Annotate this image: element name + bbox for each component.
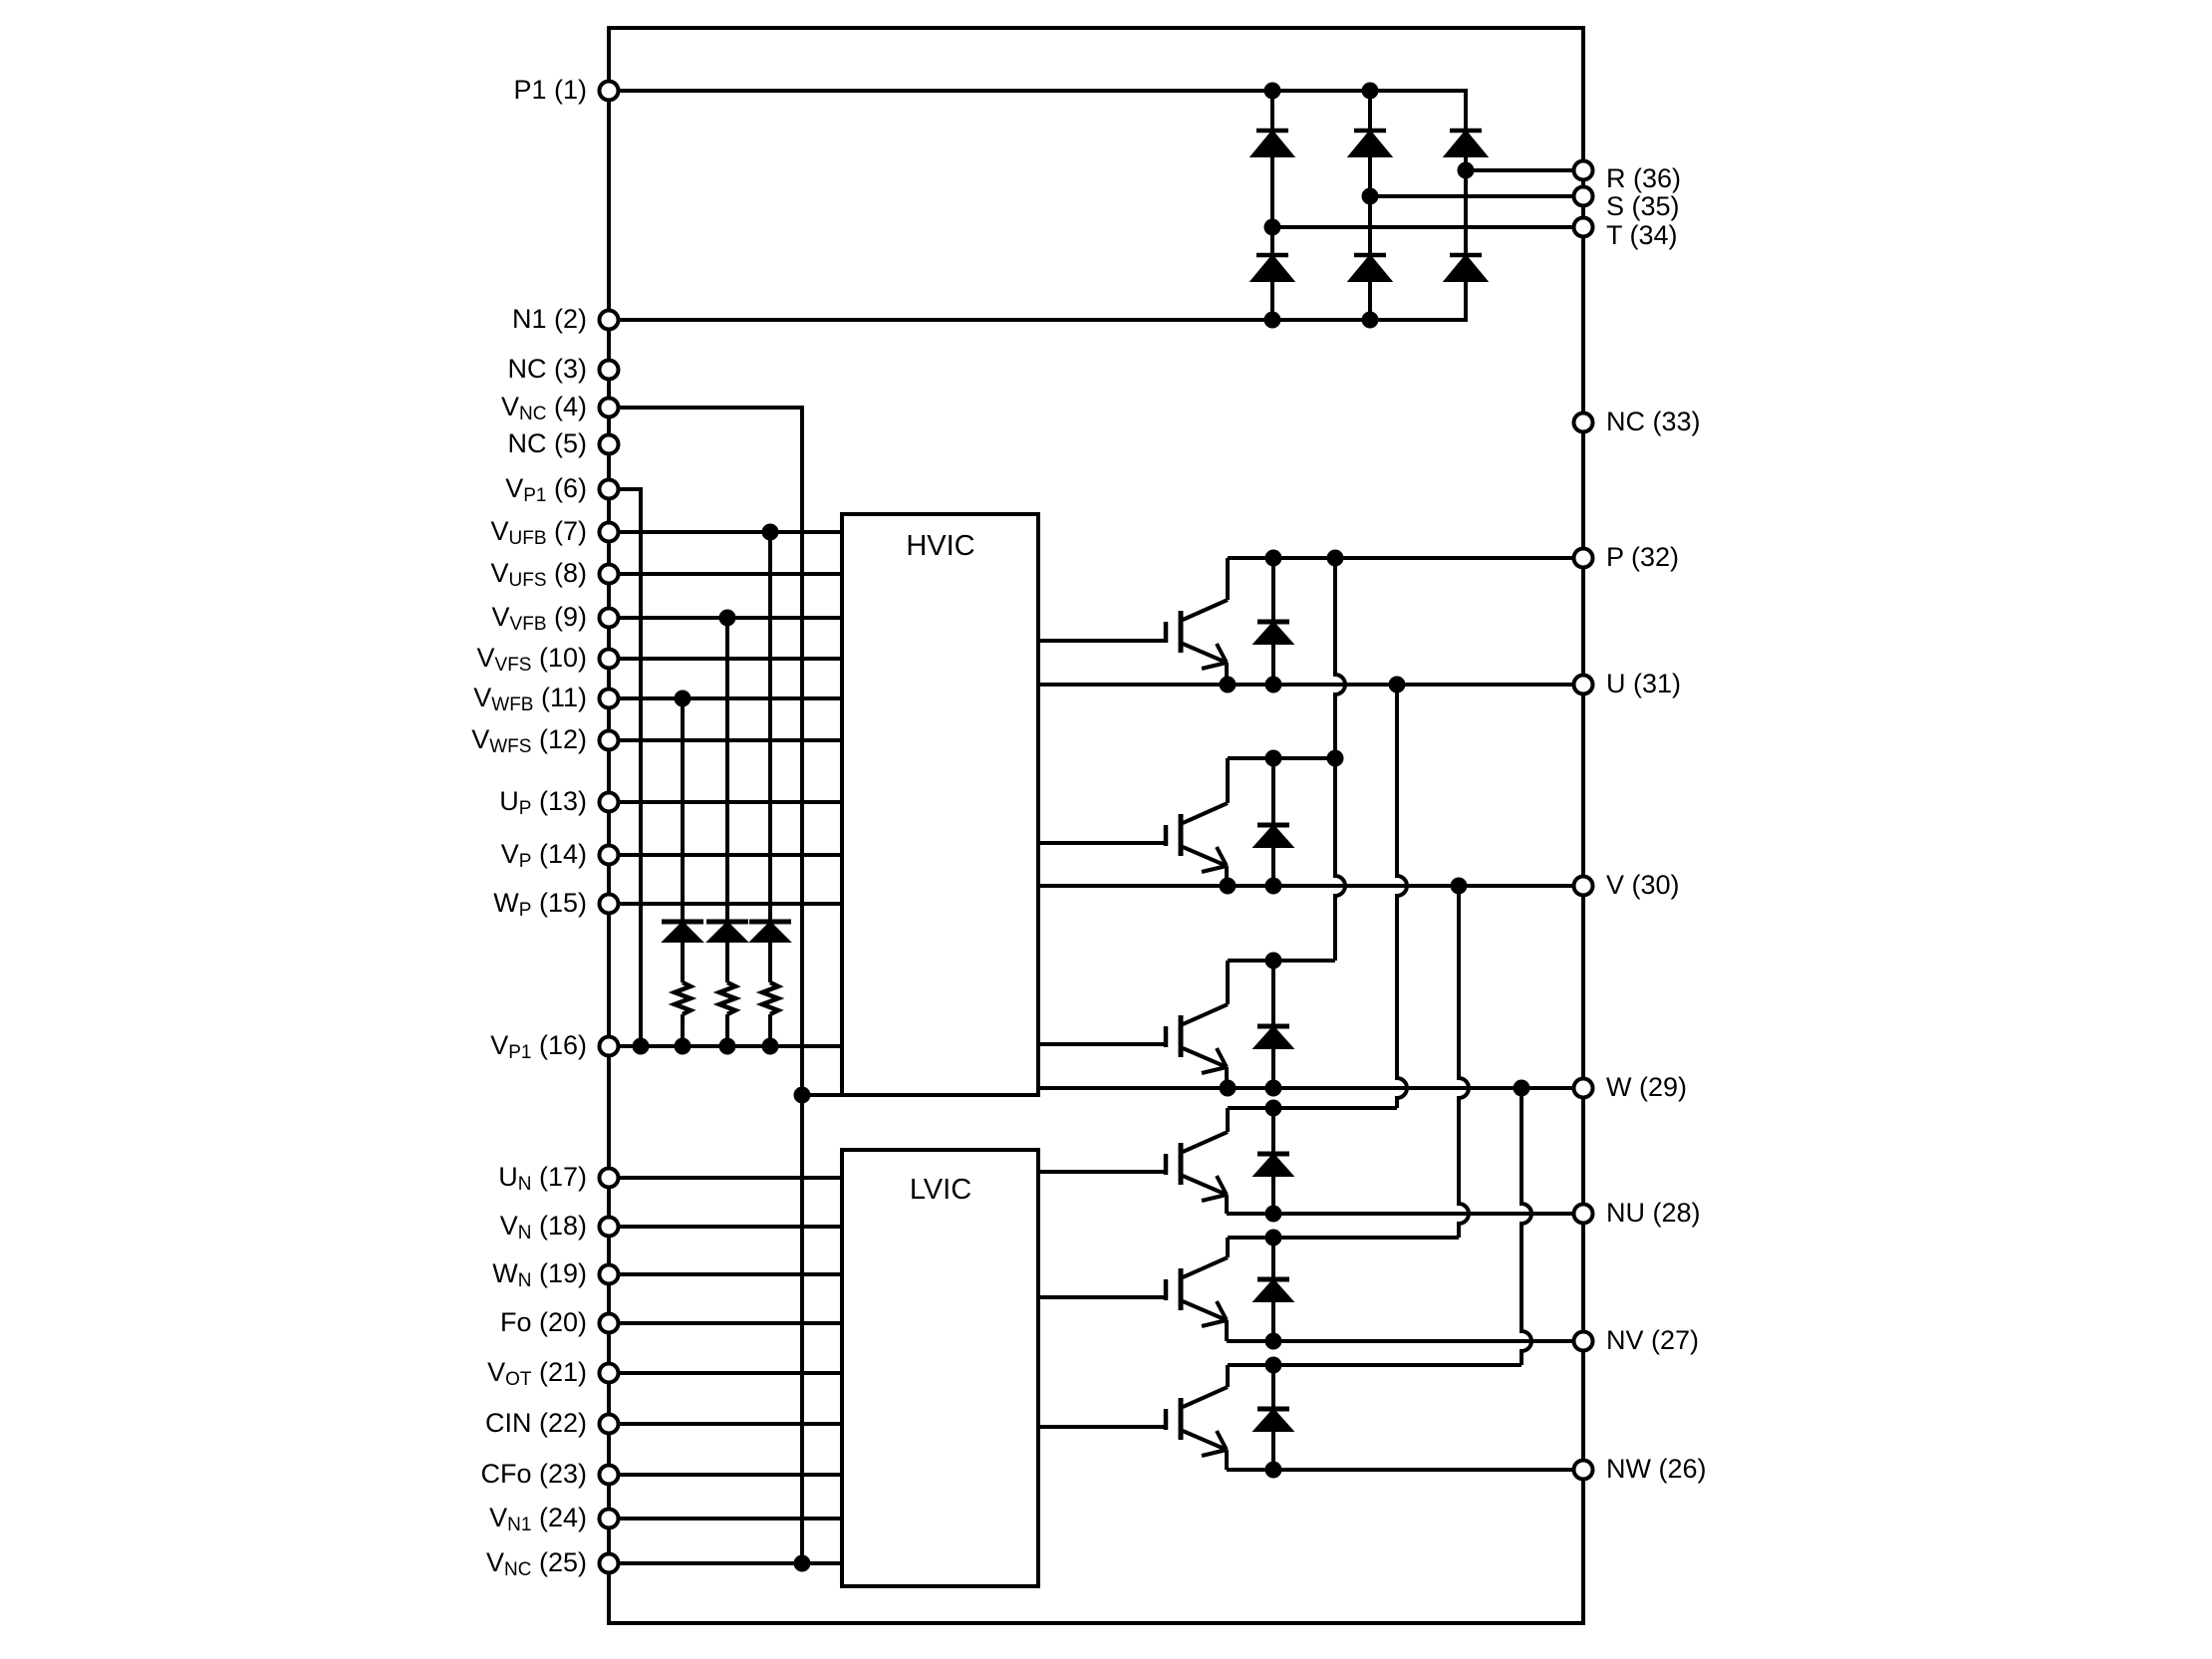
- wire V output line (pin 30): [1038, 884, 1583, 888]
- wire U output line (pin 31): [1038, 683, 1583, 687]
- node P/diode D10: [1265, 550, 1282, 567]
- node NW/diode D15 anode: [1265, 1462, 1282, 1479]
- pin U (31): [1574, 669, 1682, 698]
- svg-text:NW (26): NW (26): [1606, 1454, 1707, 1484]
- node V/down-line: [1451, 878, 1468, 895]
- wire R line: [1466, 168, 1583, 172]
- pin CIN (22): [485, 1408, 619, 1438]
- svg-text:VP1 (16): VP1 (16): [490, 1030, 587, 1063]
- wire VP (14) to HVIC: [609, 853, 842, 857]
- wire NU line (pin 28): [1227, 1212, 1583, 1216]
- diode D6 rectifier lower: [1447, 255, 1485, 280]
- svg-text:V (30): V (30): [1606, 870, 1680, 900]
- svg-text:NC (33): NC (33): [1606, 407, 1701, 436]
- node V/Q2 emitter: [1220, 878, 1237, 895]
- node N1/rect col1: [1264, 312, 1281, 329]
- wire bootstrap column U-phase: [768, 532, 772, 1046]
- wire gate lead Q3 W-phase high-side: [1038, 1042, 1166, 1046]
- pin VP (14): [501, 839, 619, 872]
- diode D12 freewheel of Q3 W-phase high-side: [1256, 961, 1290, 1088]
- diode D3 rectifier upper: [1447, 131, 1485, 155]
- svg-text:UP (13): UP (13): [499, 786, 587, 819]
- transistor Q5 V-phase low-side IGBT: [1166, 1238, 1228, 1341]
- wire NV line (pin 27): [1227, 1339, 1583, 1343]
- node U/diode D10 anode: [1265, 677, 1282, 693]
- resistor R1 bootstrap W-phase: [675, 982, 691, 1014]
- wire VUFB (7) to HVIC: [609, 530, 842, 534]
- transistor Q4 U-phase low-side IGBT: [1166, 1108, 1228, 1214]
- resistor R3 bootstrap U-phase: [762, 982, 778, 1014]
- wire VP1 net (pin 6 to VP1 pin16 rail): [609, 489, 641, 1046]
- node U/Q1 emitter: [1220, 677, 1237, 693]
- diode D9 bootstrap U-phase: [749, 922, 791, 941]
- node T junction: [1264, 219, 1281, 236]
- wire VNC (25) to LVIC: [609, 1561, 842, 1565]
- pin N1 (2): [512, 304, 619, 334]
- wire WP (15) to HVIC: [609, 902, 842, 906]
- svg-text:UN (17): UN (17): [498, 1162, 587, 1195]
- pin VNC (4): [501, 392, 618, 424]
- diode D5 rectifier lower: [1351, 255, 1389, 280]
- wire VNC net (pin 4 down to pin 25 / LVIC): [609, 408, 802, 1563]
- diode D1 rectifier upper: [1253, 131, 1291, 155]
- wire UP (13) to HVIC: [609, 800, 842, 804]
- wire bootstrap column W-phase: [681, 698, 685, 1046]
- wire P rail (pin 32): [1228, 556, 1583, 560]
- pin WP (15): [493, 888, 618, 921]
- pin R (36): [1574, 161, 1682, 194]
- wire gate lead Q4 U-phase low-side: [1038, 1170, 1166, 1174]
- node VP1 rail/VP1-6: [633, 1038, 650, 1055]
- node VWFB/bootstrap W: [675, 691, 691, 707]
- wire gate lead Q2 V-phase high-side: [1038, 841, 1166, 845]
- node W/diode D12 anode: [1265, 1080, 1282, 1097]
- pin VVFS (10): [477, 643, 619, 676]
- wire gate lead Q5 V-phase low-side: [1038, 1295, 1166, 1299]
- module package outline: [609, 28, 1583, 1623]
- pin W (29): [1574, 1072, 1688, 1102]
- diode D8 bootstrap V-phase: [706, 922, 748, 941]
- wire VWFS (12) to HVIC: [609, 738, 842, 742]
- pin VUFS (8): [490, 558, 618, 591]
- node VVFB/bootstrap V: [719, 610, 736, 627]
- wire gate lead Q6 W-phase low-side: [1038, 1425, 1166, 1429]
- pin T (34): [1574, 218, 1678, 251]
- pin VN (18): [500, 1211, 619, 1244]
- pin NC (33): [1574, 407, 1701, 436]
- rectifier bridge middle column: [1368, 91, 1372, 320]
- svg-text:NU (28): NU (28): [1606, 1198, 1701, 1228]
- pin VP1 (16): [490, 1030, 618, 1063]
- node VNC/pin25: [794, 1555, 811, 1572]
- wire CFo (23) to LVIC: [609, 1473, 842, 1477]
- svg-text:NC (3): NC (3): [508, 354, 588, 384]
- wire VVFB (9) to HVIC: [609, 616, 842, 620]
- node V collector/riser: [1327, 750, 1344, 767]
- node U/down-line: [1389, 677, 1406, 693]
- node P1/rect col1: [1264, 83, 1281, 100]
- wire P1 bus (pin 1 to rectifier top, down right column, back to N1 pin 2): [609, 91, 1466, 320]
- transistor Q6 W-phase low-side IGBT: [1166, 1365, 1228, 1470]
- diode D10 freewheel of Q1 U-phase high-side: [1256, 558, 1290, 685]
- svg-text:P (32): P (32): [1606, 542, 1679, 572]
- svg-text:VOT (21): VOT (21): [487, 1357, 587, 1390]
- wire V-phase low-side collector rail: [1228, 1236, 1459, 1240]
- diode D14 freewheel of Q5 V-phase low-side: [1256, 1238, 1290, 1341]
- diode D13 freewheel of Q4 U-phase low-side: [1256, 1108, 1290, 1214]
- svg-text:NV (27): NV (27): [1606, 1325, 1699, 1355]
- wire VNC to HVIC bottom: [802, 1093, 842, 1097]
- node VP1 rail/boot V: [719, 1038, 736, 1055]
- svg-text:N1 (2): N1 (2): [512, 304, 587, 334]
- svg-text:S (35): S (35): [1606, 191, 1680, 221]
- wire W node down-line: [1521, 1088, 1531, 1365]
- svg-text:NC (5): NC (5): [508, 428, 588, 458]
- wire P riser to V/W collectors: [1335, 558, 1345, 961]
- svg-text:W (29): W (29): [1606, 1072, 1687, 1102]
- transistor Q3 W-phase high-side IGBT: [1166, 961, 1228, 1088]
- svg-text:T (34): T (34): [1606, 220, 1678, 250]
- pin VN1 (24): [489, 1503, 618, 1535]
- node VNC/HVIC: [794, 1087, 811, 1104]
- node VP1 rail/boot U: [762, 1038, 779, 1055]
- wire UN (17) to LVIC: [609, 1176, 842, 1180]
- svg-text:U (31): U (31): [1606, 669, 1681, 698]
- node N1/rect col2: [1362, 312, 1379, 329]
- svg-text:VN1 (24): VN1 (24): [489, 1503, 587, 1535]
- wire W-phase high-side collector rail: [1228, 959, 1335, 963]
- wire NW line (pin 26): [1227, 1468, 1583, 1472]
- pin V (30): [1574, 870, 1680, 900]
- node W collector/diode D12: [1265, 953, 1282, 969]
- pin VNC (25): [486, 1547, 619, 1580]
- pin VWFB (11): [473, 683, 618, 715]
- rectifier bridge left column: [1270, 91, 1274, 320]
- pin NU (28): [1574, 1198, 1701, 1228]
- svg-text:CIN (22): CIN (22): [485, 1408, 587, 1438]
- pin UN (17): [498, 1162, 618, 1195]
- IC U2 LVIC gate-driver block: [842, 1150, 1038, 1586]
- wire VN (18) to LVIC: [609, 1225, 842, 1229]
- wire VOT (21) to LVIC: [609, 1371, 842, 1375]
- node R junction: [1458, 162, 1475, 179]
- svg-text:VP (14): VP (14): [501, 839, 587, 872]
- wire V-phase high-side collector rail: [1228, 756, 1335, 760]
- wire U node down-line: [1397, 685, 1407, 1108]
- pin VVFB (9): [492, 602, 619, 635]
- wire T line: [1272, 225, 1583, 229]
- wire U-phase low-side collector rail: [1228, 1106, 1397, 1110]
- diode D15 freewheel of Q6 W-phase low-side: [1256, 1365, 1290, 1470]
- svg-text:HVIC: HVIC: [906, 530, 974, 562]
- node LS-U collector/diode D13: [1265, 1100, 1282, 1117]
- node VP1 rail/boot W: [675, 1038, 691, 1055]
- pin Fo (20): [500, 1307, 619, 1337]
- diode D11 freewheel of Q2 V-phase high-side: [1256, 758, 1290, 886]
- node VUFB/bootstrap U: [762, 524, 779, 541]
- pin VP1 (6): [505, 473, 618, 506]
- diode D7 bootstrap W-phase: [662, 922, 703, 941]
- pin VWFS (12): [471, 724, 618, 757]
- diode D4 rectifier lower: [1253, 255, 1291, 280]
- wire V node down-line: [1459, 886, 1469, 1238]
- node NU/diode D13 anode: [1265, 1206, 1282, 1223]
- node LS-W collector/diode D15: [1265, 1357, 1282, 1374]
- pin NW (26): [1574, 1454, 1707, 1484]
- node P/riser: [1327, 550, 1344, 567]
- pin VUFB (7): [490, 516, 618, 549]
- transistor Q1 U-phase high-side IGBT: [1166, 558, 1228, 685]
- wire S line: [1370, 194, 1583, 198]
- svg-text:VN (18): VN (18): [500, 1211, 587, 1244]
- wire VUFS (8) to HVIC: [609, 572, 842, 576]
- IC U1 HVIC gate-driver block: [842, 514, 1038, 1095]
- wire VN1 (24) to LVIC: [609, 1517, 842, 1521]
- pin NC (5): [508, 428, 619, 458]
- node NV/diode D14 anode: [1265, 1333, 1282, 1350]
- svg-text:VNC (25): VNC (25): [486, 1547, 587, 1580]
- wire VWFB (11) to HVIC: [609, 696, 842, 700]
- svg-text:P1 (1): P1 (1): [513, 75, 587, 105]
- svg-text:Fo (20): Fo (20): [500, 1307, 587, 1337]
- wire Fo (20) to LVIC: [609, 1321, 842, 1325]
- wire VVFS (10) to HVIC: [609, 657, 842, 661]
- wire W-phase low-side collector rail: [1228, 1363, 1521, 1367]
- svg-text:LVIC: LVIC: [910, 1174, 971, 1206]
- node W/Q3 emitter: [1220, 1080, 1237, 1097]
- pin P1 (1): [513, 75, 618, 105]
- pin P (32): [1574, 542, 1680, 572]
- transistor Q2 V-phase high-side IGBT: [1166, 758, 1228, 886]
- pin WN (19): [492, 1258, 618, 1291]
- pin NC (3): [508, 354, 619, 384]
- pin NV (27): [1574, 1325, 1700, 1355]
- pin UP (13): [499, 786, 618, 819]
- svg-text:CFo (23): CFo (23): [480, 1459, 587, 1489]
- node LS-V collector/diode D14: [1265, 1230, 1282, 1246]
- svg-text:VVFS (10): VVFS (10): [477, 643, 588, 676]
- svg-text:VP1 (6): VP1 (6): [505, 473, 587, 506]
- node V collector/diode D11: [1265, 750, 1282, 767]
- pin S (35): [1574, 187, 1680, 222]
- node V/diode D11 anode: [1265, 878, 1282, 895]
- pin CFo (23): [480, 1459, 618, 1489]
- node S junction: [1362, 188, 1379, 205]
- wire VP1 (16) rail to HVIC: [609, 1044, 842, 1048]
- svg-text:WN (19): WN (19): [492, 1258, 587, 1291]
- wire W output line (pin 29): [1038, 1086, 1583, 1090]
- svg-text:WP (15): WP (15): [493, 888, 587, 921]
- wire CIN (22) to LVIC: [609, 1422, 842, 1426]
- diode D2 rectifier upper: [1351, 131, 1389, 155]
- wire WN (19) to LVIC: [609, 1272, 842, 1276]
- node P1/rect col2: [1362, 83, 1379, 100]
- wire gate lead Q1 U-phase high-side: [1038, 639, 1166, 643]
- svg-text:R (36): R (36): [1606, 163, 1681, 193]
- wire bootstrap column V-phase: [725, 618, 729, 1046]
- node W/down-line: [1514, 1080, 1530, 1097]
- pin VOT (21): [487, 1357, 618, 1390]
- resistor R2 bootstrap V-phase: [719, 982, 735, 1014]
